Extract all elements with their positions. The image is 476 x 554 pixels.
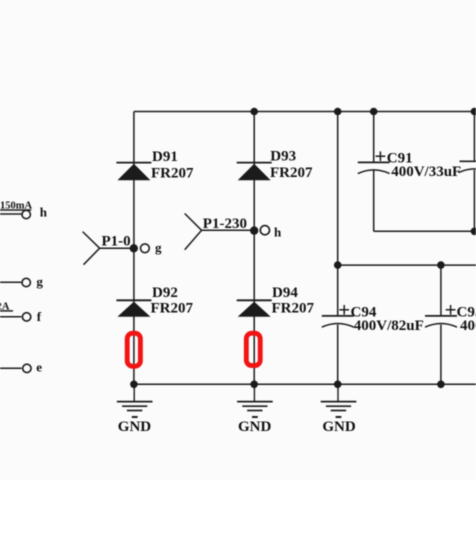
node middle bus V3 xyxy=(334,261,342,269)
label D94 FR207 xyxy=(272,285,315,317)
label D92 FR207 xyxy=(151,285,194,317)
node C91 return right xyxy=(471,228,476,236)
wire pin g stub xyxy=(0,281,21,283)
svg-text:400V/33uF: 400V/33uF xyxy=(391,164,461,180)
svg-text:g: g xyxy=(155,240,162,255)
pin g terminal xyxy=(22,278,30,286)
wire 150mA label underline xyxy=(0,209,31,211)
node top bus V3 xyxy=(334,108,342,116)
capacitor C95 partial xyxy=(425,305,457,327)
wire C91 top leg xyxy=(373,112,375,163)
capacitor C91 xyxy=(358,151,390,173)
ground GND1 xyxy=(117,384,153,417)
wire pin e stub xyxy=(0,367,22,369)
svg-text:P1-0: P1-0 xyxy=(102,233,131,249)
svg-text:400V/82uF: 400V/82uF xyxy=(460,318,476,334)
ground GND2 xyxy=(237,384,273,417)
label D91 FR207 xyxy=(151,149,194,181)
svg-text:e: e xyxy=(36,360,42,375)
node P1-230 junction xyxy=(250,226,258,234)
node top bus C91 xyxy=(370,108,378,116)
ground GND3 xyxy=(321,384,357,417)
node P1-0 junction xyxy=(130,244,138,252)
svg-text:150mA: 150mA xyxy=(0,200,32,211)
wire pin h stub xyxy=(0,213,22,215)
diode D92 xyxy=(116,300,151,317)
capacitor C94 xyxy=(322,305,354,327)
svg-text:2A: 2A xyxy=(0,301,10,312)
wire C95 top leg xyxy=(440,265,442,316)
pin h2 terminal xyxy=(260,226,269,235)
wire bottom bus xyxy=(134,383,476,385)
wire C91 bottom leg xyxy=(373,170,375,231)
label D93 FR207 xyxy=(270,149,313,181)
node top bus right xyxy=(471,108,476,116)
label C95 400V partial xyxy=(457,304,476,334)
wire third column V3 upper xyxy=(337,112,339,316)
pin f terminal xyxy=(22,313,30,321)
svg-text:FR207: FR207 xyxy=(270,165,313,181)
wire C91 return link xyxy=(374,230,476,232)
svg-text:FR207: FR207 xyxy=(151,165,194,181)
wire top bus xyxy=(134,111,476,113)
connector P1-0 xyxy=(83,232,134,265)
node bottom bus C95 xyxy=(437,381,445,389)
svg-text:D93: D93 xyxy=(270,149,296,165)
svg-text:g: g xyxy=(36,274,43,289)
wire right cap bottom leg xyxy=(473,170,475,231)
wire third column V3 lower xyxy=(337,325,339,385)
diode D93 xyxy=(237,163,272,181)
pin h terminal xyxy=(22,210,30,218)
wire C95 bottom leg xyxy=(440,325,442,385)
highlight marker right xyxy=(246,333,260,365)
svg-text:h: h xyxy=(40,205,48,220)
node bottom bus V2 xyxy=(250,381,258,389)
svg-text:P1-230: P1-230 xyxy=(203,216,247,232)
node top bus D93 xyxy=(250,108,258,116)
svg-text:FR207: FR207 xyxy=(151,301,194,317)
diode D91 xyxy=(116,163,151,181)
svg-text:GND: GND xyxy=(238,419,272,435)
pin e terminal xyxy=(23,364,31,372)
label C91 400V/33uF xyxy=(387,150,461,179)
svg-text:D91: D91 xyxy=(152,149,178,165)
svg-text:D92: D92 xyxy=(152,285,178,301)
label C94 400V/82uF xyxy=(351,304,424,334)
svg-text:h: h xyxy=(274,225,282,240)
wire second column V2 xyxy=(253,112,255,385)
wire pin f stub xyxy=(0,316,21,318)
pin g2 terminal xyxy=(141,244,150,253)
svg-text:GND: GND xyxy=(322,419,356,435)
node bottom bus V3 xyxy=(334,381,342,389)
highlight marker left xyxy=(127,333,140,366)
node middle bus C95 xyxy=(437,261,445,269)
connector P1-230 xyxy=(185,214,255,250)
wire left column V1 xyxy=(133,112,135,385)
node bottom bus V1 xyxy=(130,381,138,389)
wire right cap top leg xyxy=(473,112,475,162)
svg-text:400V/82uF: 400V/82uF xyxy=(354,318,424,334)
svg-text:f: f xyxy=(37,309,42,324)
svg-text:D94: D94 xyxy=(272,285,298,301)
wire middle bus xyxy=(338,264,476,266)
wire 2A label underline xyxy=(0,310,13,312)
svg-text:GND: GND xyxy=(118,419,152,435)
diode D94 xyxy=(237,300,272,317)
capacitor C92 partial xyxy=(459,161,476,172)
svg-text:FR207: FR207 xyxy=(272,301,315,317)
